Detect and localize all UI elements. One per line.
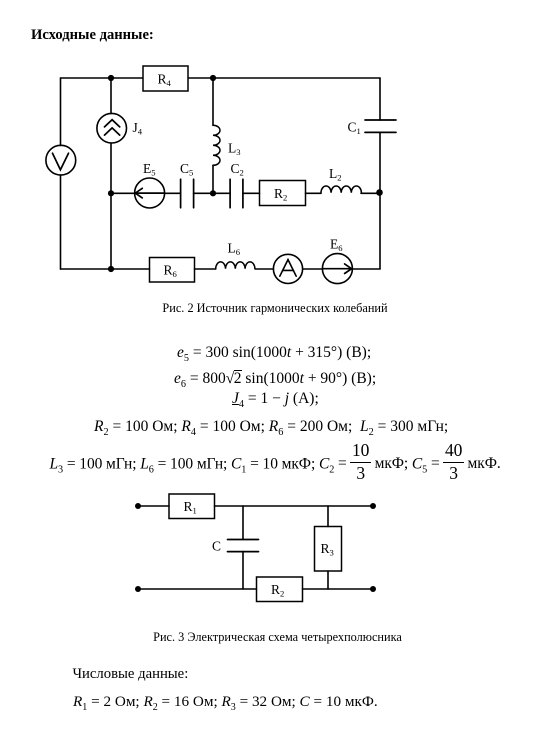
svg-text:R1: R1 [184, 499, 197, 515]
inductor L3 [213, 125, 241, 165]
capacitor C5 [180, 161, 194, 208]
svg-text:L6: L6 [228, 241, 241, 257]
wire: J4 branch upper [110, 78, 112, 114]
wire: left branch upper (top rail to voltmeter) [60, 78, 62, 146]
wire: L3 branch upper [212, 78, 214, 125]
formula line 1 [177, 344, 371, 364]
wire: right rail lower [379, 193, 381, 268]
svg-text:R6: R6 [164, 263, 178, 279]
formula line 2 [174, 370, 376, 390]
source E6 [322, 237, 352, 284]
svg-text:C: C [212, 539, 221, 554]
node: bottom rail / J4 branch [108, 266, 114, 272]
svg-text:J4: J4 [133, 120, 143, 136]
wire: E5 to C5 [165, 192, 181, 194]
resistor R3 [315, 527, 342, 572]
terminal: input top [135, 503, 141, 509]
node: right rail middle [376, 189, 383, 196]
wire: C branch lower [242, 552, 244, 589]
wire: top rail left segment [138, 505, 169, 507]
capacitor C [212, 539, 259, 554]
wire: top rail right segment [215, 505, 374, 507]
resistor R6 [150, 258, 195, 283]
wire: C2 to R2 [243, 192, 260, 194]
wire: bottom rail left [61, 268, 150, 270]
svg-text:E6: E6 [330, 237, 343, 253]
caption: Рис. 2 [0, 301, 537, 316]
wire: R3 branch lower [327, 571, 329, 589]
capacitor C2 [230, 161, 244, 208]
wire: R2 to L2 [306, 192, 322, 194]
heading: Исходные данные: [31, 27, 154, 44]
wire: J4 branch middle (J4 to middle-row node) [110, 143, 112, 193]
wire: top rail [61, 77, 381, 79]
ammeter A [273, 254, 302, 283]
wire: J4 branch lower (middle-row node to bottom rail) [110, 193, 112, 269]
resistor R1 [169, 494, 215, 519]
wire: right rail upper [379, 78, 381, 120]
wire: L6 to ammeter [255, 268, 273, 270]
inductor L6 [216, 241, 255, 269]
wire: C5 to middle node [194, 192, 231, 194]
wire: L3 branch lower [212, 165, 214, 193]
resistor R2 (fig.3) [257, 577, 303, 602]
wire: right rail middle [379, 132, 381, 193]
formula: final line [73, 693, 378, 713]
svg-text:C1: C1 [348, 120, 361, 136]
wire: R3 branch upper [327, 506, 329, 527]
wire: ammeter to E6 [303, 268, 323, 270]
svg-text:C2: C2 [231, 161, 244, 177]
text: Числовые данные: [73, 666, 189, 683]
current source J4 [97, 113, 143, 143]
node: L3 bottom / middle row [210, 190, 216, 196]
wire: L2 to right-rail node [361, 192, 380, 194]
terminal: output top [370, 503, 376, 509]
svg-text:R2: R2 [274, 186, 287, 202]
node: top rail / J4 branch [108, 75, 114, 81]
wire: middle row node to E5 [111, 192, 135, 194]
wire: bottom rail right segment [303, 588, 374, 590]
capacitor C1 [348, 120, 397, 136]
svg-text:C5: C5 [180, 161, 193, 177]
resistor R4 [143, 66, 188, 91]
svg-text:R3: R3 [321, 541, 334, 557]
svg-text:L2: L2 [329, 166, 342, 182]
wire: bottom rail left segment [138, 588, 257, 590]
formula line 3 [232, 390, 319, 410]
terminal: output bottom [370, 586, 376, 592]
formula line 4 [94, 418, 448, 438]
wire: R6 to L6 [195, 268, 216, 270]
wire: C branch upper [242, 506, 244, 540]
wire: E6 to right rail [352, 268, 380, 270]
caption: Рис. 3 [0, 630, 537, 645]
resistor R2 [260, 181, 306, 206]
svg-text:R2: R2 [271, 582, 284, 598]
source E5 [135, 161, 165, 208]
node: top rail / L3 branch [210, 75, 216, 81]
wire: left branch lower (voltmeter to bottom rail) [60, 175, 62, 269]
inductor L2 [321, 166, 361, 193]
node: middle row left [108, 190, 114, 196]
svg-text:L3: L3 [228, 141, 241, 157]
voltmeter V [46, 145, 76, 175]
svg-text:E5: E5 [143, 161, 156, 177]
formula line 5 [50, 442, 501, 483]
terminal: input bottom [135, 586, 141, 592]
